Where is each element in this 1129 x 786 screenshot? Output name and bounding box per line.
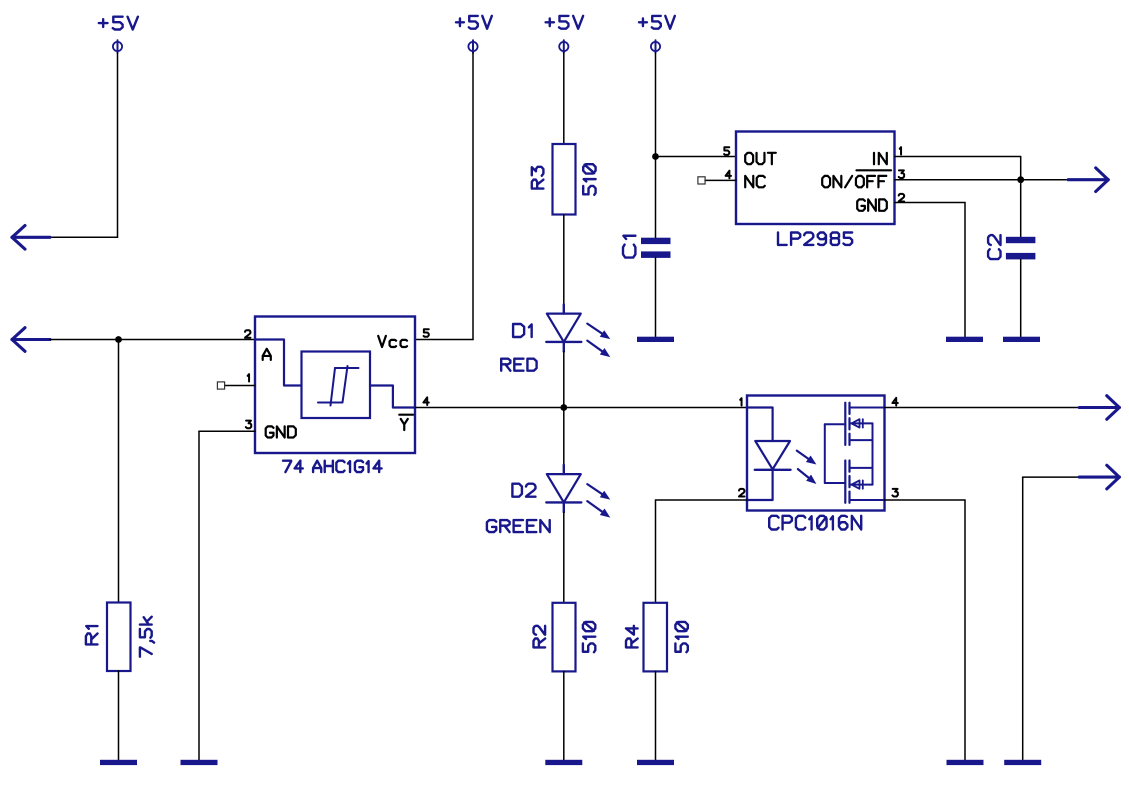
ground GND9 [1004, 760, 1041, 765]
value 510 R3 [583, 164, 595, 195]
wire OK1 pin4 to arrow [885, 407, 1080, 409]
OK1 mosfet bottom [845, 461, 884, 503]
wire to R1 [118, 340, 120, 603]
U1 label GND [266, 426, 296, 437]
LED D1 [546, 304, 610, 357]
U1 pin 3 number [246, 421, 251, 429]
label R4 [626, 626, 638, 648]
ground GND4 [637, 337, 674, 342]
wire node to C2 [1020, 180, 1022, 237]
U2 pin 1 number [900, 147, 901, 154]
U2 label IN [874, 153, 887, 164]
label C2 [988, 235, 1000, 259]
U2 label NC [745, 176, 765, 187]
junction node R1/A [115, 336, 122, 343]
U1 input internal wire [256, 340, 302, 386]
wire P2 to IC1 pin5 [416, 53, 474, 340]
OK1 pin 1 number [740, 398, 741, 405]
U1 label A [263, 349, 271, 360]
OK1 internal LED [748, 408, 791, 501]
label D1 [513, 324, 532, 337]
IC U2 LP2985 box [736, 132, 895, 225]
off-page arrow right A3 [1068, 168, 1108, 192]
IC U1 inner gate box [302, 352, 371, 419]
IC OK1 CPC1016N box [747, 396, 885, 511]
U2 name LP2985 [778, 233, 852, 245]
capacitor C2 [1006, 237, 1036, 260]
off-page arrow right A5 [1079, 465, 1119, 489]
value 510 R4 [675, 622, 687, 652]
LED D2 [546, 465, 610, 518]
wire OK1 pin2 to R4 [656, 500, 748, 603]
label R1 [86, 626, 98, 644]
wire node to C1 [655, 157, 657, 238]
resistor R2 body [553, 603, 576, 672]
U2 pin 4 nc square [698, 177, 705, 184]
wire node to U2 OUT [656, 156, 737, 158]
OK1 pin 2 number [739, 489, 744, 497]
U1 pin 4 number [423, 397, 428, 405]
junction node LED chain [560, 404, 567, 411]
label R2 [534, 626, 546, 648]
OK1 source/body link [872, 423, 874, 484]
OK1 name CPC1016N [769, 516, 861, 530]
OK1 mosfet top [845, 403, 884, 445]
ground GND7 [637, 760, 674, 765]
wire U2 ON/OFF to arrow [895, 179, 1070, 181]
wire arrow A5 down [1023, 477, 1079, 760]
power +5V P2 [456, 16, 492, 53]
U2 pin 3 number [899, 170, 904, 178]
OK1 pin 4 number [892, 398, 897, 406]
U2 pin 4 number [726, 171, 731, 179]
wire R2 to ground [563, 671, 565, 759]
wire P4 to node [655, 53, 657, 157]
wire U1.4 to OK1.1 [416, 407, 748, 409]
resistor R4 body [644, 603, 668, 672]
ground GND8 [947, 760, 984, 765]
ground GND5 [1003, 337, 1040, 342]
resistor R3 body [553, 144, 576, 215]
U1 pin 5 number [424, 329, 429, 337]
resistor R1 body [107, 603, 131, 672]
power +5V P1 [99, 17, 138, 53]
wire P1 horizontal [50, 236, 118, 238]
off-page arrow right A4 [1079, 396, 1119, 420]
wire R1 to ground [118, 671, 120, 760]
value 7,5k [140, 617, 154, 657]
U2 label ON/OFF [822, 170, 891, 187]
label RED [501, 359, 536, 371]
wire D1 to D2 [563, 352, 565, 465]
OK1 light arrows [797, 451, 817, 484]
wire P1 vertical [117, 53, 119, 238]
U1 label Vcc [378, 336, 407, 347]
U2 pin 4 stub [705, 179, 736, 181]
power +5V P3 [546, 16, 584, 53]
label C1 [623, 236, 635, 258]
OK1 pin 3 number [892, 489, 897, 497]
U1 output internal wire [370, 386, 414, 408]
ground GND3 [545, 760, 582, 765]
U1 pin 3 wire [199, 431, 255, 760]
label R3 [532, 167, 544, 189]
U1 pin 1 stub [225, 385, 255, 387]
U2 label OUT [745, 153, 776, 164]
wire P3 to R3 [563, 53, 565, 144]
ground GND2 [181, 760, 218, 765]
junction node C2/IN [1017, 176, 1024, 183]
U1 label Y [399, 415, 413, 430]
label D2 [512, 484, 535, 497]
label GREEN [487, 520, 550, 532]
U2 pin 5 number [724, 147, 729, 155]
capacitor C1 [641, 238, 671, 258]
schmitt trigger symbol [318, 366, 359, 406]
ground GND1 [100, 760, 137, 765]
junction node C1/OUT [652, 153, 659, 160]
wire U2 GND pin2 [895, 203, 966, 337]
wire R4 to ground [655, 671, 657, 759]
U1 pin 1 number [248, 374, 249, 381]
U2 label GND [857, 199, 887, 210]
wire net IN_A [50, 339, 255, 341]
wire D2 to R2 [563, 512, 565, 603]
wire C2 to ground [1020, 259, 1022, 336]
OK1 gate link [825, 424, 846, 483]
value 510 R2 [583, 622, 595, 652]
power +5V P4 [639, 16, 675, 53]
wire C1 to ground [655, 258, 657, 337]
wire OK1 pin3 down [885, 500, 966, 760]
U1 pin 2 number [245, 330, 250, 338]
ground GND6 [946, 337, 983, 342]
IC U1 74AHC1G14 box [255, 317, 415, 454]
U2 pin 2 number [899, 194, 904, 202]
wire U2 IN [895, 157, 1021, 180]
U1 pin 1 nc square [217, 382, 224, 389]
wire R3 to D1 [563, 215, 565, 305]
off-page arrow left A2 [12, 328, 50, 352]
off-page arrow left A1 [12, 226, 50, 250]
U1 name 74AHC1G14 [283, 461, 382, 472]
